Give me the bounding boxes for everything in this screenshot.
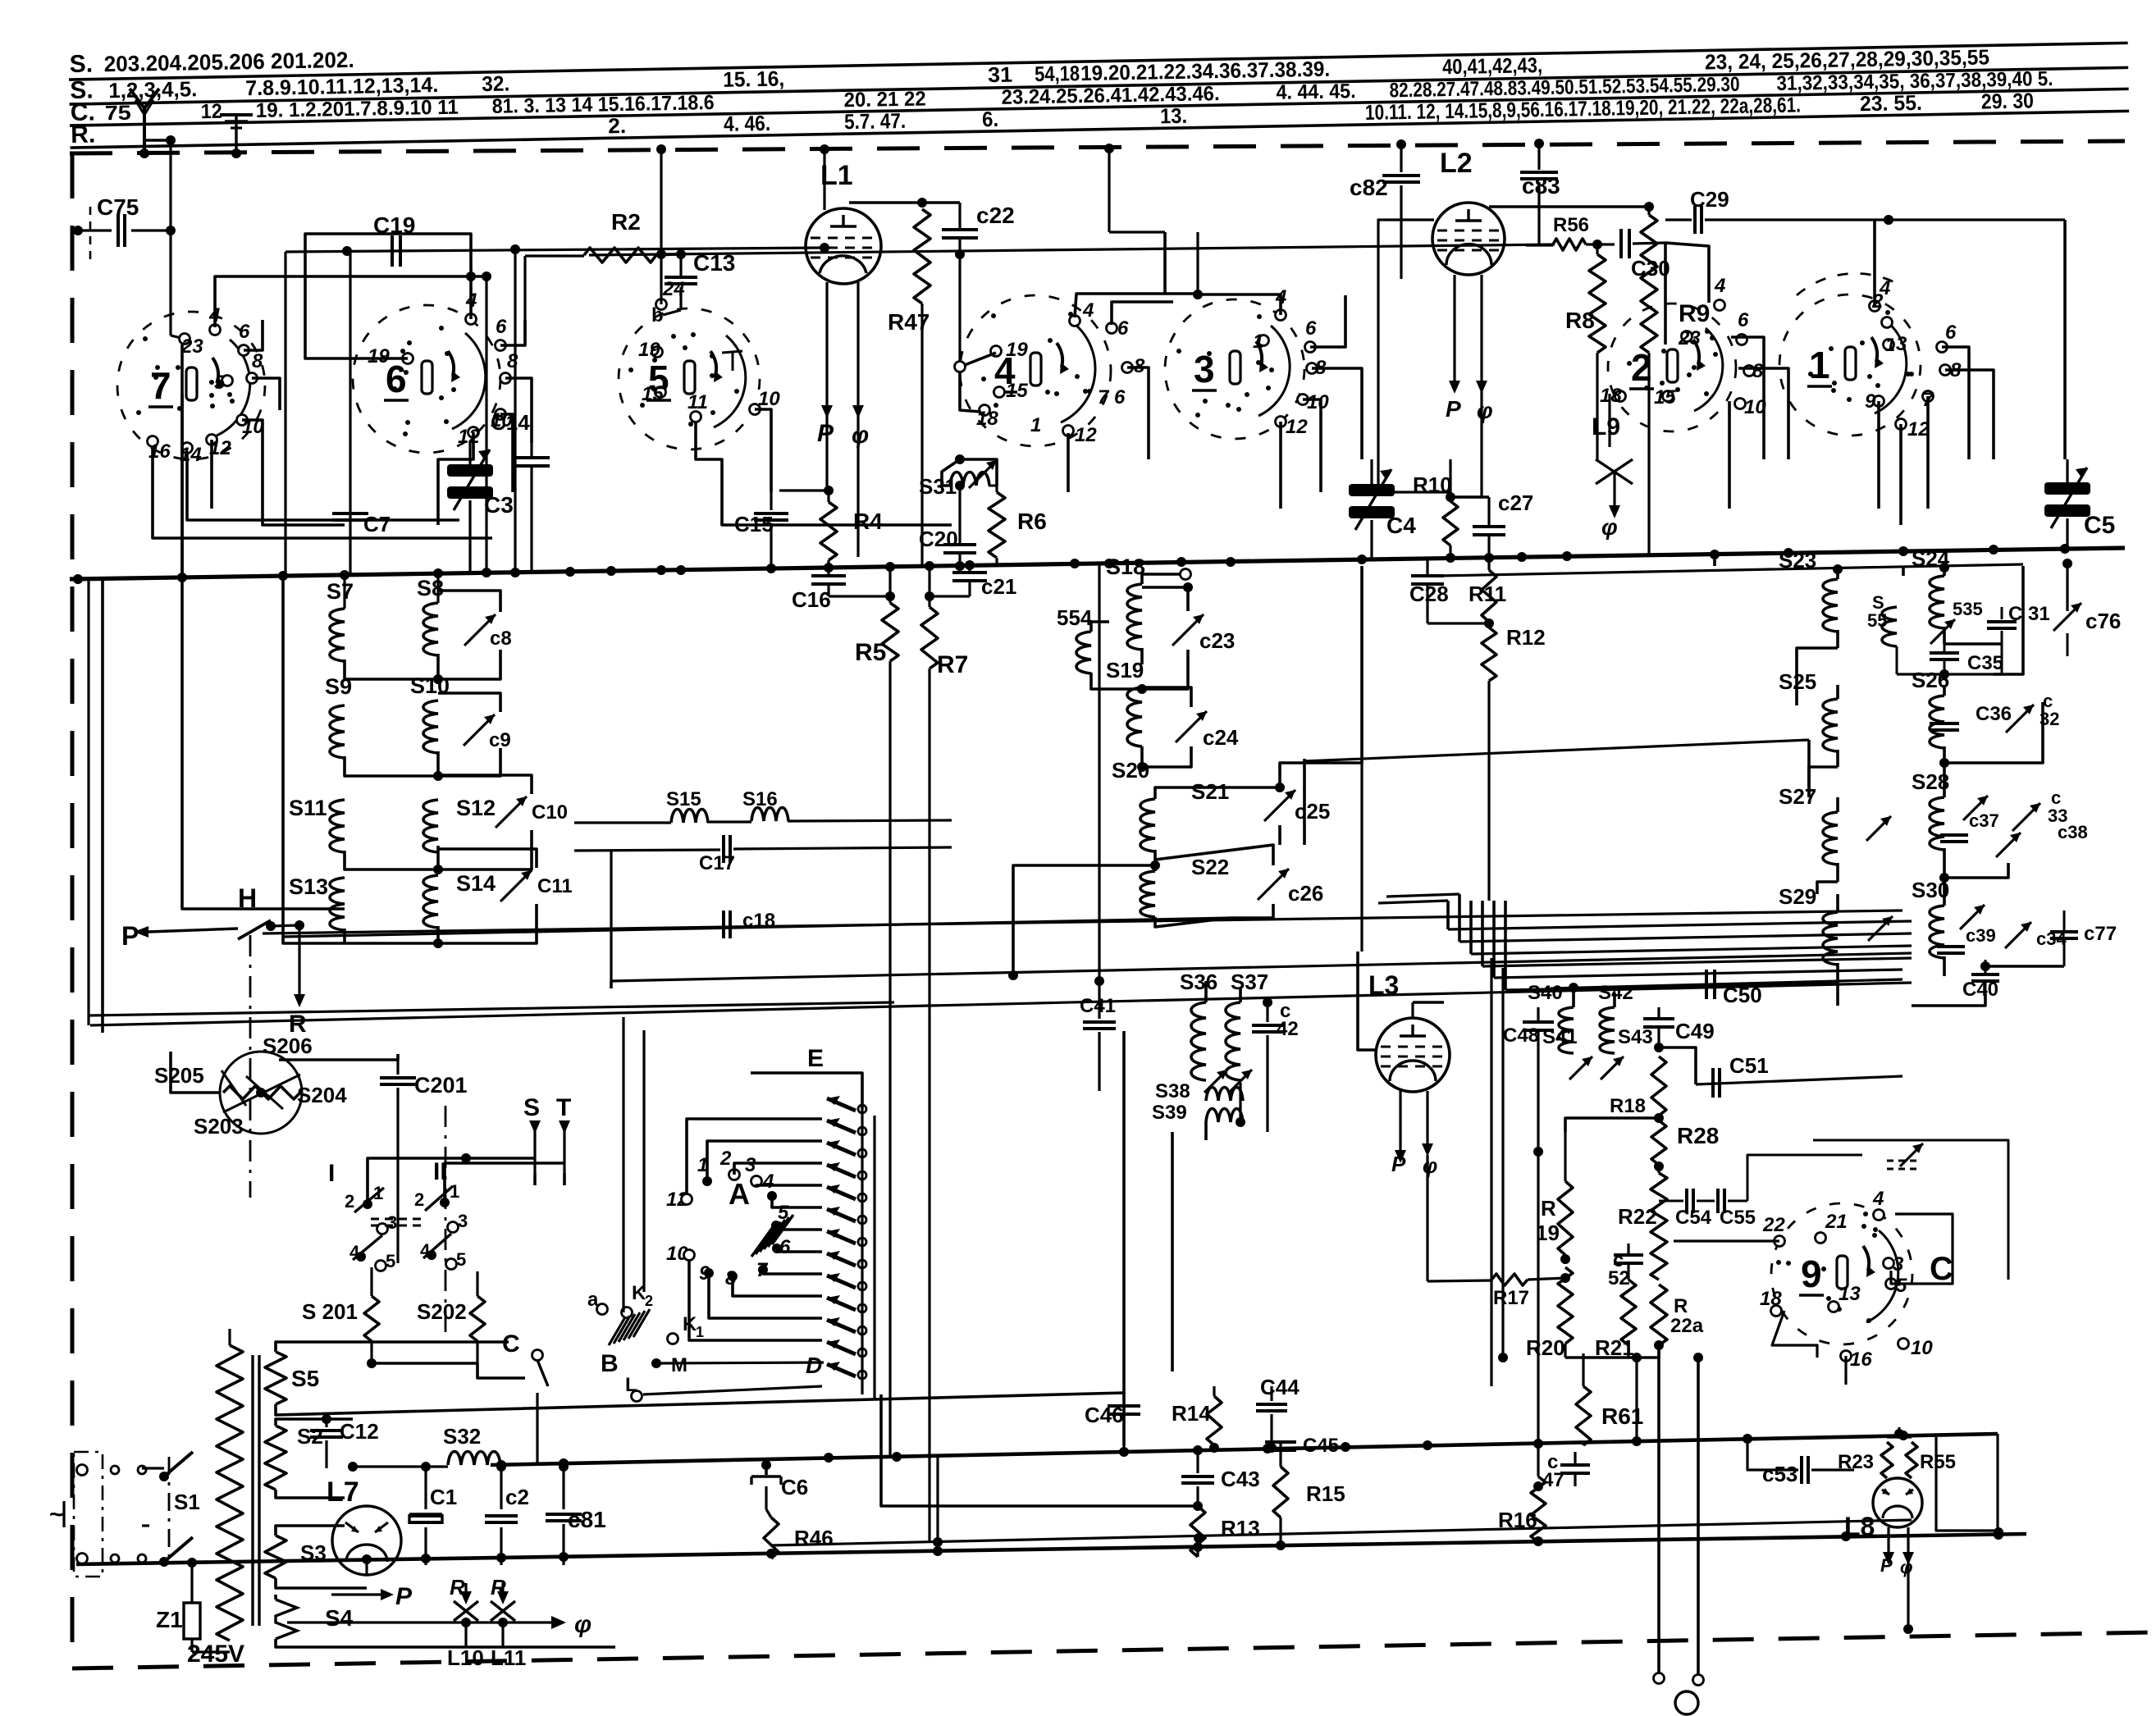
wafer 7 pin 4 wire up xyxy=(215,272,491,327)
coil S14 xyxy=(423,871,496,948)
coil S11 xyxy=(289,796,438,869)
rotary switch wafer 1 xyxy=(1779,277,1962,440)
svg-text:C: C xyxy=(1930,1251,1953,1287)
capacitor c82 xyxy=(1350,139,1420,279)
svg-text:C20: C20 xyxy=(919,527,958,551)
label 245V xyxy=(187,1641,244,1668)
capacitor C2 xyxy=(485,1462,529,1565)
svg-text:L3: L3 xyxy=(1368,970,1399,1000)
coil S29 xyxy=(1779,884,1838,981)
svg-text:R2: R2 xyxy=(611,209,641,235)
svg-text:S11: S11 xyxy=(289,796,327,820)
wire second right horizontal xyxy=(1440,559,2072,611)
wafer 6 pin 19 loop wire xyxy=(305,234,471,358)
svg-text:R47: R47 xyxy=(888,309,930,335)
bottom bus lower (thick) xyxy=(76,1434,2026,1634)
wafer 4 pin 8 wire right xyxy=(1127,367,1149,459)
svg-text:C35: C35 xyxy=(1967,652,2003,674)
svg-text:c39: c39 xyxy=(1966,925,1996,946)
selector contact 5 xyxy=(771,1202,822,1230)
wire right tall vertical xyxy=(2023,459,2065,566)
svg-text:S27: S27 xyxy=(1779,784,1816,809)
resistor R20 xyxy=(1526,1259,1642,1441)
svg-text:S5: S5 xyxy=(291,1366,319,1391)
svg-text:5: 5 xyxy=(1896,1275,1907,1297)
transformer primary winding xyxy=(193,1329,243,1641)
coil S30 xyxy=(1912,878,1949,976)
svg-text:R28: R28 xyxy=(1677,1123,1719,1148)
coil S40 xyxy=(1528,982,1574,1053)
svg-text:R4: R4 xyxy=(853,509,883,534)
svg-text:C43: C43 xyxy=(1221,1467,1260,1491)
contact K2 xyxy=(622,1282,654,1318)
svg-text:I: I xyxy=(328,1160,335,1187)
svg-text:S32: S32 xyxy=(443,1424,481,1449)
coil S36 xyxy=(1180,970,1217,1080)
wafer 3 pin 4 wire up xyxy=(1193,232,1281,315)
selector contact 3 xyxy=(745,1154,822,1187)
terminals S T xyxy=(523,1094,571,1185)
coil S7 xyxy=(327,575,438,679)
header parts list rows S/S/C/R with rules xyxy=(68,14,2129,148)
wire L3 box xyxy=(1345,952,1395,1173)
svg-text:40,41,42,43,: 40,41,42,43, xyxy=(1442,52,1543,79)
svg-text:R: R xyxy=(1541,1196,1556,1221)
coil S15 inline xyxy=(574,788,708,823)
svg-text:L10: L10 xyxy=(447,1645,484,1670)
resistor R55 xyxy=(1887,1427,1956,1478)
svg-text:16: 16 xyxy=(1850,1349,1872,1371)
resistor R6 xyxy=(989,486,1047,565)
wire R18 node left xyxy=(1565,1118,1659,1132)
wire long vertical x1143 xyxy=(936,1456,939,1551)
coil S35 trimmer xyxy=(1930,599,1983,644)
wire C6 left to bus xyxy=(722,1465,751,1481)
svg-text:23. 55.: 23. 55. xyxy=(1860,90,1923,116)
svg-text:3: 3 xyxy=(458,1211,468,1231)
svg-text:S14: S14 xyxy=(456,871,496,896)
resistor R11 xyxy=(1469,558,1506,628)
svg-text:P: P xyxy=(1391,1152,1406,1176)
svg-text:S37: S37 xyxy=(1231,970,1268,994)
svg-text:C16: C16 xyxy=(792,587,831,612)
capacitor C21 xyxy=(930,565,1016,599)
svg-text:1: 1 xyxy=(1885,335,1895,355)
capacitor C53 xyxy=(1747,1434,1854,1486)
svg-text:R56: R56 xyxy=(1553,214,1589,236)
svg-text:19: 19 xyxy=(1006,339,1028,361)
wire antenna node down to wafer 7 pin 23 xyxy=(171,230,185,339)
dashed enclosure frame top edge xyxy=(70,141,2125,153)
svg-text:23: 23 xyxy=(1678,327,1701,349)
svg-text:23: 23 xyxy=(180,335,203,358)
switch I xyxy=(328,1160,397,1271)
capacitor C6 xyxy=(751,1460,808,1516)
selector contact 6 xyxy=(772,1236,822,1258)
resistor R19 xyxy=(1536,1132,1573,1264)
coil S10 xyxy=(410,673,450,781)
coil S38 xyxy=(1155,1080,1243,1102)
svg-text:S9: S9 xyxy=(325,674,352,699)
wire vertical x1660 middle xyxy=(1360,763,1363,952)
wire left bank verticals xyxy=(89,345,345,1033)
coil S26 xyxy=(1912,668,1949,763)
svg-text:L11: L11 xyxy=(491,1645,526,1670)
wire C50 line xyxy=(1551,979,1902,993)
svg-text:c77: c77 xyxy=(2084,923,2117,945)
selector fan contacts xyxy=(827,1096,875,1399)
wafer 4 pin 6 wire up xyxy=(1112,302,1173,325)
coil S55 xyxy=(1867,592,1897,646)
coil S37 xyxy=(1226,970,1268,1080)
wire L1 lead verticals down xyxy=(827,410,858,557)
wire L2 plate loop xyxy=(1378,220,1482,497)
svg-text:c8: c8 xyxy=(490,628,512,650)
hatch blob B xyxy=(601,1309,650,1377)
svg-text:S23: S23 xyxy=(1779,548,1816,573)
svg-text:S15: S15 xyxy=(666,788,701,810)
svg-text:P: P xyxy=(1880,1555,1893,1576)
capacitor C52 xyxy=(1608,1244,1643,1289)
svg-text:22: 22 xyxy=(1762,1214,1785,1236)
svg-text:32.: 32. xyxy=(482,71,510,97)
svg-text:C51: C51 xyxy=(1729,1053,1769,1078)
svg-text:3: 3 xyxy=(745,1154,756,1176)
svg-text:S13: S13 xyxy=(289,874,328,899)
svg-text:D: D xyxy=(806,1353,822,1378)
svg-text:C6: C6 xyxy=(781,1475,808,1499)
rotary switch wafer 9 xyxy=(1760,1188,1933,1371)
svg-text:C50: C50 xyxy=(1723,983,1762,1007)
wire S21 S22 right verticals xyxy=(1280,566,1809,845)
svg-text:12: 12 xyxy=(1075,424,1097,446)
svg-text:R22: R22 xyxy=(1618,1204,1657,1229)
svg-text:c2: c2 xyxy=(505,1485,529,1509)
capacitor c83 xyxy=(1520,139,1560,246)
arrow P from S3 xyxy=(331,1583,413,1610)
wafer 5 label b xyxy=(651,304,664,326)
coil S27 xyxy=(1779,784,1838,882)
svg-text:C1: C1 xyxy=(430,1485,457,1509)
svg-text:3: 3 xyxy=(387,1212,397,1233)
svg-text:R16: R16 xyxy=(1498,1508,1537,1532)
svg-text:S203: S203 xyxy=(194,1114,244,1139)
trimmer on S28 xyxy=(1963,796,1988,820)
wafer 7 pin 8 wire to S7 xyxy=(252,378,280,410)
trimmer S36 S37 arrows xyxy=(1204,1070,1252,1093)
svg-text:6: 6 xyxy=(496,316,507,338)
dashed enclosure frame bottom edge xyxy=(72,1632,2151,1668)
rotary switch wafer 2 xyxy=(1600,275,1766,431)
tube L8 xyxy=(1844,1478,1922,1541)
coil S42 xyxy=(1598,982,1902,1053)
resistor R22a xyxy=(1637,1285,1704,1358)
wire R14 C44 node xyxy=(1214,1445,1272,1450)
svg-text:12: 12 xyxy=(201,100,222,123)
svg-text:H: H xyxy=(238,883,257,913)
svg-text:C7: C7 xyxy=(363,512,391,536)
terminal phi bottom xyxy=(1675,1691,1698,1714)
svg-text:S12: S12 xyxy=(456,796,496,820)
svg-text:15. 16,: 15. 16, xyxy=(723,66,785,92)
coil S16 inline xyxy=(707,788,952,822)
contact K1 xyxy=(668,1313,705,1344)
coil S24 xyxy=(1912,546,1950,644)
svg-text:6.: 6. xyxy=(982,107,999,131)
coil S12 xyxy=(423,796,496,874)
trimmer C76 xyxy=(2053,599,2121,656)
rotary switch wafer 3 xyxy=(1165,286,1329,439)
resistor R61 xyxy=(1576,1353,1643,1445)
svg-text:R9: R9 xyxy=(1679,300,1710,327)
capacitor C36 xyxy=(1930,703,2012,746)
svg-text:8: 8 xyxy=(252,350,263,372)
wafer 2 pin 4 wire up xyxy=(1665,243,1709,303)
capacitor C12 xyxy=(310,1414,379,1468)
resistor R9 xyxy=(1641,202,1710,555)
svg-text:6: 6 xyxy=(1738,309,1749,331)
wire C18 line xyxy=(283,918,1231,937)
svg-text:1: 1 xyxy=(1030,414,1041,436)
selector contact 12 xyxy=(666,1119,822,1211)
wafer 1 pin 4 wire up xyxy=(1875,215,1893,306)
capacitor C15 xyxy=(734,492,788,568)
svg-text:S43: S43 xyxy=(1618,1026,1653,1048)
svg-text:S1: S1 xyxy=(174,1490,200,1514)
coil S39 xyxy=(1152,1083,1245,1140)
svg-text:S205: S205 xyxy=(154,1063,204,1088)
wafer 3 pin 12 wire down xyxy=(1279,422,1282,509)
svg-text:c24: c24 xyxy=(1203,725,1239,750)
trimmer C26 xyxy=(1155,845,1323,918)
svg-text:S7: S7 xyxy=(327,579,354,604)
selector contact 7 xyxy=(756,1259,822,1281)
svg-text:R8: R8 xyxy=(1565,308,1595,333)
switch S1 xyxy=(142,1452,200,1567)
wire bundle line 5 xyxy=(1482,901,1912,966)
svg-text:C36: C36 xyxy=(1976,703,2012,725)
svg-text:1: 1 xyxy=(450,1181,459,1202)
switch H with P R xyxy=(121,883,307,1038)
svg-text:S21: S21 xyxy=(1191,779,1229,804)
coil S54 xyxy=(1057,605,1147,694)
switch C xyxy=(502,1330,548,1464)
svg-text:75: 75 xyxy=(105,102,132,126)
capacitor C50 xyxy=(1706,970,1762,1007)
svg-text:B: B xyxy=(601,1350,619,1377)
contact L xyxy=(625,1374,822,1402)
resistor R2 xyxy=(525,209,686,345)
wafer 1 outer dashed arc xyxy=(1797,273,1903,313)
wire long vertical from R5 xyxy=(888,661,891,1457)
trimmer C10 xyxy=(438,775,568,869)
tube L2 xyxy=(1432,148,1505,275)
svg-text:φ: φ xyxy=(1423,1153,1437,1178)
svg-text:L7: L7 xyxy=(327,1476,359,1508)
capacitor C7 xyxy=(332,251,391,575)
bottom mid wire xyxy=(771,1520,1912,1547)
wafer 2 pin 8 wire right xyxy=(1738,368,1788,459)
resistor R22 xyxy=(1618,1166,1667,1280)
svg-text:5: 5 xyxy=(214,372,226,394)
arrow phi from S4 xyxy=(287,1611,592,1638)
wire right bank frame xyxy=(1797,566,2064,1006)
svg-text:c76: c76 xyxy=(2085,609,2121,633)
svg-text:S39: S39 xyxy=(1152,1102,1187,1124)
transformer secondary S3 xyxy=(265,1526,367,1588)
svg-text:12: 12 xyxy=(1286,416,1308,438)
svg-text:1: 1 xyxy=(1253,331,1263,353)
wire L1 top to frame xyxy=(823,149,825,210)
svg-text:R12: R12 xyxy=(1506,625,1546,650)
capacitor C44 xyxy=(1214,1375,1300,1453)
svg-text:245V: 245V xyxy=(187,1641,244,1668)
resistor R7 xyxy=(921,566,968,678)
dash-dot vertical from H xyxy=(249,935,252,1198)
svg-text:2: 2 xyxy=(719,1148,732,1170)
contact a xyxy=(587,1289,608,1315)
lamp L10 xyxy=(447,1575,484,1670)
resistor R17 xyxy=(1427,1155,1570,1309)
wafer 6 pin 8 stub right xyxy=(505,378,532,443)
trimmer C8 xyxy=(438,591,512,679)
capacitor C28 xyxy=(1409,559,1489,623)
wire S205 to frame xyxy=(171,1052,220,1093)
svg-text:19: 19 xyxy=(368,345,390,367)
wire bundle elbow group xyxy=(1505,901,1838,990)
selector contact 9 xyxy=(699,1262,822,1318)
wire bundle line 6 xyxy=(1494,901,1902,978)
svg-text:T: T xyxy=(556,1094,571,1121)
wafer 2 pin 10 wire down xyxy=(1728,401,1731,509)
coil S32 xyxy=(348,1424,500,1472)
capacitor C43 xyxy=(1181,1450,1260,1511)
svg-text:3: 3 xyxy=(1896,333,1907,355)
wire C43 node left xyxy=(881,1394,1198,1506)
svg-text:S206: S206 xyxy=(263,1034,313,1058)
coil S22 xyxy=(1140,855,1231,927)
svg-text:9: 9 xyxy=(1801,1253,1822,1295)
wire P-H line long xyxy=(263,910,1902,933)
svg-text:10: 10 xyxy=(1911,1337,1933,1359)
wafer 9 box xyxy=(1813,1140,2008,1287)
wire wafer3 rect loop xyxy=(1104,144,1165,294)
capacitor C13 xyxy=(663,250,735,315)
capacitor C75 xyxy=(73,194,171,264)
wafer 4 label 76 xyxy=(1098,386,1126,408)
svg-text:c25: c25 xyxy=(1295,799,1330,824)
svg-text:R55: R55 xyxy=(1920,1451,1956,1473)
rotary switch wafer 4 xyxy=(960,295,1145,446)
wire wafer4 pins to S18 xyxy=(1075,279,1099,489)
wafer 1 pin 6 wire right xyxy=(1942,347,1969,459)
wire C51 line xyxy=(1696,1076,1902,1084)
resistor R15 xyxy=(1273,1467,1345,1545)
svg-text:A: A xyxy=(729,1177,750,1211)
ground xyxy=(220,115,253,158)
svg-text:52: 52 xyxy=(1608,1267,1630,1289)
wire S31 top hook xyxy=(942,454,997,486)
capacitor C17 xyxy=(574,835,952,874)
wire C19 line xyxy=(285,243,829,576)
coil S21 xyxy=(1013,779,1285,975)
coil S13 xyxy=(289,874,438,943)
svg-text:φ: φ xyxy=(1900,1557,1912,1577)
svg-text:R23: R23 xyxy=(1838,1451,1874,1473)
svg-text:R18: R18 xyxy=(1610,1095,1646,1117)
svg-text:18: 18 xyxy=(1760,1288,1782,1310)
resistor R14 xyxy=(1172,1386,1222,1453)
wafer 6 pin 4 wire xyxy=(466,272,476,319)
wire bundle line 2 xyxy=(1378,901,1912,929)
wafer 5 pin 24 wire up to R2 node xyxy=(660,254,662,304)
svg-text:R.: R. xyxy=(71,121,96,149)
capacitor C22 xyxy=(942,203,1015,259)
svg-text:5.7. 47.: 5.7. 47. xyxy=(844,108,907,134)
wafer 7 pin 14 wire down xyxy=(187,453,459,520)
capacitor C19 xyxy=(373,212,415,267)
capacitor C55 xyxy=(1697,1155,1862,1229)
trimmer on S29 xyxy=(1868,916,1893,941)
wafer 7 pin 6 stub xyxy=(244,320,263,350)
trimmer C9 xyxy=(438,693,511,776)
svg-text:8: 8 xyxy=(1752,360,1764,382)
svg-text:R: R xyxy=(1674,1295,1688,1317)
transformer secondary S2 xyxy=(265,1419,353,1498)
svg-text:c38: c38 xyxy=(2058,822,2088,842)
tube L8 leads xyxy=(1880,1527,1914,1577)
svg-text:C201: C201 xyxy=(414,1073,468,1098)
bottom bus upper (thick) xyxy=(491,1431,1998,1470)
capacitor C41 xyxy=(1080,564,1116,1091)
svg-text:2: 2 xyxy=(345,1191,354,1212)
svg-text:C19: C19 xyxy=(373,212,415,238)
svg-text:φ: φ xyxy=(1477,398,1493,423)
wafer 6 pin 6 stub xyxy=(500,320,525,345)
svg-text:1: 1 xyxy=(696,1324,704,1340)
svg-text:5: 5 xyxy=(386,1251,395,1271)
svg-text:9: 9 xyxy=(1865,390,1876,413)
svg-text:R7: R7 xyxy=(937,651,968,678)
wafer 4 pin 19/18 wires from C22 node xyxy=(955,254,997,412)
capacitor c42 xyxy=(1252,997,1299,1132)
wafer 7 pin 12 wire down xyxy=(210,440,213,509)
svg-text:b: b xyxy=(651,304,664,326)
tube L7 xyxy=(327,1476,401,1575)
svg-text:C41: C41 xyxy=(1080,995,1116,1017)
capacitor C20 xyxy=(919,481,976,566)
capacitor C49 xyxy=(1643,1007,1715,1084)
svg-text:φ: φ xyxy=(1601,514,1618,540)
wire S13 bottom to C18 line xyxy=(283,937,345,943)
svg-text:13.: 13. xyxy=(1160,103,1188,129)
capacitor c81 xyxy=(546,1462,606,1565)
svg-text:15: 15 xyxy=(642,383,664,405)
wafer 5 T mark xyxy=(722,351,742,371)
svg-text:10: 10 xyxy=(1307,391,1329,413)
wafer 3 pin 10 wire down xyxy=(1303,399,1321,492)
svg-text:M: M xyxy=(671,1354,687,1376)
svg-text:24: 24 xyxy=(662,278,685,300)
svg-text:6: 6 xyxy=(1945,322,1957,344)
wire vertical pair left of fan xyxy=(624,1017,644,1312)
capacitor C30 xyxy=(1621,229,1670,345)
resistor R13 xyxy=(1190,1506,1260,1557)
selector contact 2 xyxy=(719,1148,822,1180)
svg-text:c82: c82 xyxy=(1350,175,1388,200)
svg-text:S4: S4 xyxy=(325,1605,354,1631)
svg-text:S20: S20 xyxy=(1112,758,1149,783)
